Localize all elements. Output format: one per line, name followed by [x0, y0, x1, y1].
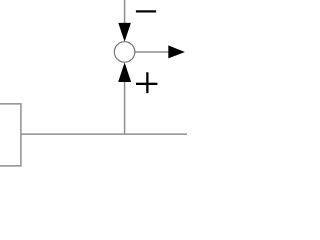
label: plus sign — [136, 72, 157, 93]
wire: feedback line from block output to right edge — [21, 133, 187, 135]
arrowhead: output (pointing right) — [168, 45, 185, 58]
arrowhead: plus input (pointing up into junction) — [118, 62, 131, 82]
summing junction circle — [114, 42, 135, 63]
arrowhead: minus input (pointing down into junction) — [118, 23, 131, 42]
label: minus sign — [136, 10, 156, 12]
wire: reference input from top — [124, 0, 126, 23]
block G (rectangle, partially off-canvas left) — [0, 104, 21, 166]
wire: vertical feedback branch up to summing junction — [124, 82, 126, 135]
wire: output to the right — [135, 51, 169, 53]
